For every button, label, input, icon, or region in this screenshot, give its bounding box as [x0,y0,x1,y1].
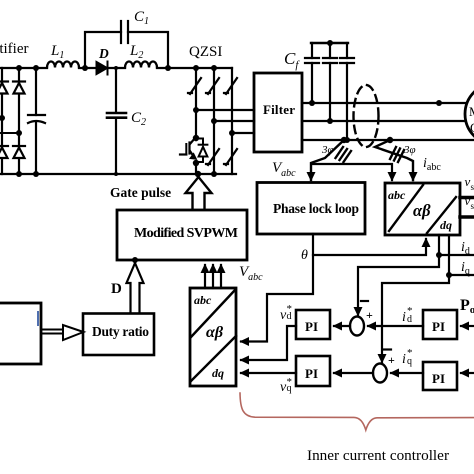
inductor L1 [47,62,79,68]
svg-text:abc: abc [194,293,212,307]
svg-text:Duty ratio: Duty ratio [92,324,149,339]
tap Vabc diagonal [311,140,344,180]
svg-text:sq: sq [471,201,474,211]
capacitor C input [28,68,45,174]
svg-text:sd: sd [471,182,474,192]
svg-text:Cf: Cf [284,49,300,71]
node bottom rail leg2 [16,171,22,177]
node line a [436,100,442,106]
svg-text:iq: iq [461,260,470,277]
svg-text:M: M [469,104,474,119]
node Cf bus [327,40,333,46]
svg-text:D: D [98,46,109,61]
svg-text:PI: PI [432,319,445,334]
wire Vabc to abc-dq [313,164,392,180]
box dq-abc transform [190,288,236,386]
diode D12 [0,146,8,158]
wire Vabc cmd 1 [204,265,206,288]
svg-text:3φ: 3φ [403,144,416,156]
svg-text:D: D [111,281,122,297]
svg-text:dq: dq [212,366,224,380]
diode Q1 antiparallel [195,139,207,163]
wire iq ref [391,372,423,374]
diagonal 1 [389,185,423,231]
svg-text:Vabc: Vabc [239,264,263,283]
wire AC input b [0,132,19,134]
diagonal 2 [427,197,456,233]
wire bottom DC rail [0,173,236,175]
motor M [465,83,474,145]
node leg1 phase [193,107,199,113]
svg-text:Filter: Filter [263,102,295,117]
diode D [97,62,108,75]
inverter leg 1 [195,68,197,174]
svg-text:q: q [287,383,292,394]
wire id out [439,235,474,255]
wire id ref [368,325,423,327]
node leg2 top [211,65,217,71]
box Duty ratio [83,314,154,356]
wire AC input a [0,117,2,119]
node leg2 phase [211,118,217,124]
switch S2 lower [206,149,219,165]
IGBT branch nodes [193,135,199,141]
svg-text:3φ: 3φ [321,144,334,156]
svg-text:abc: abc [388,188,406,202]
box PI q outer [423,362,457,390]
switch S3 lower [224,149,237,165]
box abc-dq transform [385,183,460,235]
svg-text:Phase lock loop: Phase lock loop [273,201,359,216]
node AC b [16,130,22,136]
wire Cf top bus [311,42,348,44]
inverter leg 2 [213,68,215,174]
svg-text:αβ: αβ [413,201,431,220]
diagonal 1 [191,290,235,337]
switch S1 upper [188,78,201,94]
tap iabc slashes [390,147,404,162]
node D arrow top [132,257,138,263]
wire filter out a [302,102,466,104]
svg-text:PI: PI [305,319,318,334]
capacitor Cf1 [305,43,319,103]
svg-text:αβ: αβ [206,324,224,341]
wire top DC rail [0,67,47,69]
svg-text:C1: C1 [134,9,149,27]
node Cf2 tap [327,118,333,124]
wire theta rail [313,234,426,255]
svg-text:d: d [407,314,412,325]
tap iabc diagonal [375,140,413,180]
tap Vabc slashes [336,147,352,162]
switch S2 upper [206,78,219,94]
box Modified SVPWM [117,210,247,260]
svg-text:Inner current controller: Inner current controller [307,447,449,464]
wire vq ref [241,372,296,374]
rectifier leg 1 [1,68,3,174]
capacitor Cf3 [340,43,354,140]
switch S3 upper [224,78,237,94]
svg-text:d: d [287,311,292,322]
svg-text:G: G [470,120,474,135]
node Cf1 tap [309,100,315,106]
svg-text:+: + [366,308,373,322]
capacitor Cf2 [323,43,337,121]
svg-text:C2: C2 [131,110,146,128]
node top rail cap [33,65,39,71]
svg-text:Modified SVPWM: Modified SVPWM [134,226,238,241]
wire id feedback [358,255,439,315]
svg-text:q: q [407,356,412,367]
svg-text:PI: PI [305,366,318,381]
svg-text:Rectifier: Rectifier [0,41,28,57]
box Phase lock loop [257,183,365,235]
svg-text:PI: PI [432,371,445,386]
svg-text:i: i [402,352,406,367]
wire Vabc cmd 2 [212,265,214,288]
capacitor C2 [107,68,126,174]
inductor L2 [125,62,157,68]
node AC a [0,115,5,121]
wire L1 to D [79,67,97,69]
wire vd ref [241,326,296,360]
wire outer d in [461,325,474,327]
wire filter out b [302,120,467,122]
wire L2 to inverter [157,67,232,69]
IGBT Q1 [180,138,196,159]
svg-text:L2: L2 [129,43,143,61]
blue mark [37,312,39,325]
hollow arrow to duty ratio [41,325,84,340]
node Vabc tap [341,137,347,143]
svg-text:Gate pulse: Gate pulse [110,185,171,200]
node iabc tap [387,137,393,143]
svg-text:Po: Po [460,297,474,316]
node leg1 top [193,65,199,71]
wire Vabc cmd 3 [220,265,222,288]
box PI d inner [296,310,330,339]
svg-text:iabc: iabc [423,156,441,173]
capacitor C1 loop [85,21,168,68]
node top rail leg2 [16,65,22,71]
box Filter [254,73,302,152]
wire vq out [460,215,474,219]
node C1 right [165,65,171,71]
node C1 left / D anode [82,65,88,71]
wire sum2 to PI [334,372,373,374]
diode D21 [13,82,25,94]
brace inner current controller [240,393,474,430]
node C2 top [114,66,118,70]
node id [436,252,442,258]
box controller cut [0,303,41,364]
node leg3 phase [229,130,235,136]
duty ratio D arrow [127,263,144,313]
wire sum1 to PI [334,325,350,327]
wire vd out [460,196,474,200]
wire theta to dq-abc [241,255,313,342]
svg-text:θ: θ [301,248,308,263]
wire filter out c [302,139,474,141]
gate pulse arrow [186,177,212,209]
wire phase b to filter [214,120,254,122]
svg-text:L1: L1 [50,43,64,61]
wire phase a to filter [196,109,254,111]
svg-text:Vabc: Vabc [272,160,296,179]
node gate junction [195,171,201,177]
svg-text:id: id [461,240,470,257]
diagonal 2 [191,336,236,381]
inverter leg 3 [231,68,233,174]
measurement dashed ellipse [354,85,379,147]
wire outer q in [461,372,474,374]
box PI q inner [296,356,330,386]
node bottom rail cap [33,171,39,177]
svg-text:+: + [388,353,395,367]
wire iq feedback [382,275,449,362]
svg-text:QZSI: QZSI [189,44,222,60]
svg-text:i: i [402,310,406,325]
summing junction 1 [350,317,364,336]
wire D to L2 [107,67,125,69]
node C2 bottom [114,172,118,176]
svg-text:dq: dq [440,218,452,232]
summing junction 2 [373,364,387,383]
diode D11 [0,82,8,94]
rectifier leg 2 [18,68,20,174]
node iq [446,272,452,278]
node leg2 bottom [211,171,217,177]
diode D22 [13,146,25,158]
box PI d outer [423,310,457,339]
wire phase c to filter [232,132,254,134]
node Cf3 tap [344,137,350,143]
wire iq out [449,235,474,275]
